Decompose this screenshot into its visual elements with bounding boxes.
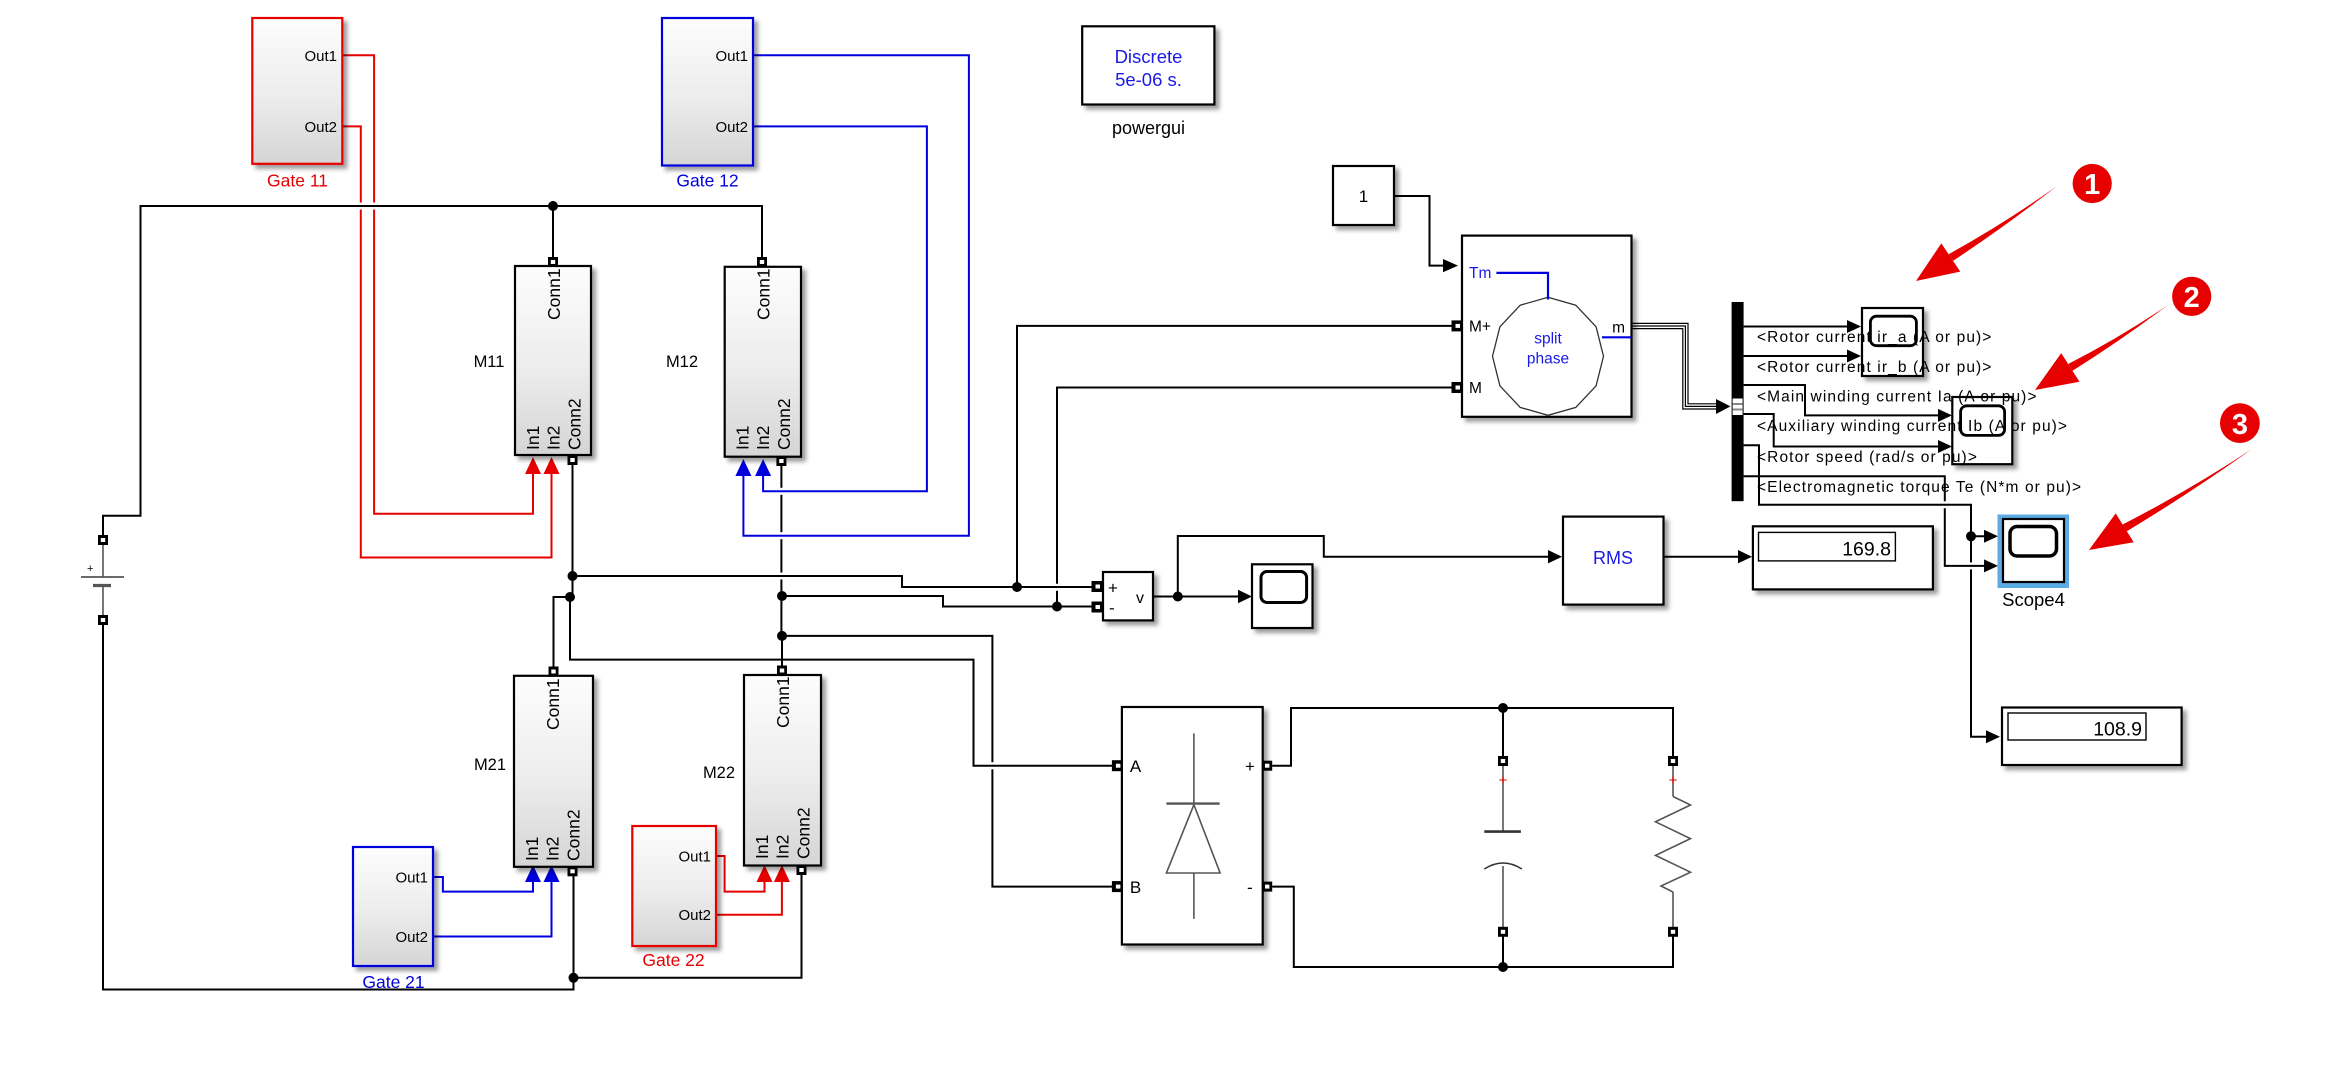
gate 12 wire out2 to M12 in2 (blue) [753,126,927,491]
arrowhead into scope2 in1 [1938,409,1952,422]
svg-text:In1: In1 [522,837,542,861]
svg-text:split: split [1534,331,1562,348]
svg-text:+: + [87,563,93,575]
arrowhead into voltage scope [1238,590,1252,603]
svg-text:+: + [1108,579,1118,598]
M11 Conn1 port [548,257,558,267]
annotation number circle 2 [2172,277,2211,316]
M11 Conn2 port [568,455,578,465]
svg-text:A: A [1130,757,1142,776]
wire node C to voltmeter minus [782,596,1093,607]
junction DC plus rail / capacitor [1498,703,1508,713]
wire node B to bridge A [570,597,1113,766]
svg-text:In2: In2 [544,426,564,450]
junction v output / RMS branch [1173,592,1183,602]
constant block 1 [1333,166,1394,225]
M11 in1 red port arrow [525,457,541,474]
wire M12 Conn2 down through node C to node D [780,465,782,488]
svg-text:108.9: 108.9 [2093,719,2142,741]
svg-text:1: 1 [2084,169,2100,201]
svg-text:In2: In2 [543,837,563,861]
wire voltmeter output to scope [1153,596,1247,598]
svg-text:1: 1 [1359,187,1368,206]
M22 in2 red port arrow [774,865,790,882]
svg-text:In1: In1 [523,426,543,450]
arrowhead into scope4 in2 [1984,559,1998,572]
subsystem Gate 21 [353,847,433,992]
junction node D M22 Conn1 / bridge B [777,631,787,641]
bus signal labels [1757,329,2082,496]
wire M21 Conn2 junction to M22 Conn2 [574,875,802,978]
M21 in1 blue port arrow [525,865,541,882]
M21 Conn1 port [549,667,559,677]
wire tap to split phase M+ [1017,326,1452,587]
gate 21 wire out2 to M21 in2 (blue) [433,878,552,937]
wire constant to Tm [1394,196,1443,266]
bridge A port [1112,760,1123,771]
gate 22 wire out2 to M22 in2 (red) [716,878,782,915]
diode bridge rectifier block [1122,707,1263,945]
wire top DC rail to capacitor [1502,708,1504,761]
DC voltage source battery [81,544,124,616]
bus triple line m to bus selector [1632,323,1718,409]
gate 11 wire out1 to M11 in1 (red) [342,55,782,914]
battery bottom port [98,615,108,625]
svg-text:Conn2: Conn2 [794,807,814,859]
svg-text:Conn2: Conn2 [774,398,794,450]
bus selector bar [1732,302,1744,501]
wire bridge plus to top DC rail [1272,708,1673,766]
wire bus tap3 to scope2 in1 [1744,385,1948,415]
junction node B M21 Conn1 / bridge A [565,592,575,602]
wire battery plus to M11/M12 Conn1 top rail [103,206,762,536]
wire RMS output to display [1664,556,1748,558]
svg-text:m: m [1612,320,1625,337]
svg-text:<Rotor current ir_b (A or pu)>: <Rotor current ir_b (A or pu)> [1757,359,1992,376]
wire bus tap2 to scope1 in2 [1744,355,1857,357]
svg-text:<Main winding current Ia (A or: <Main winding current Ia (A or pu)> [1757,389,2038,406]
junction rotor speed to scope4 and display [1966,531,1976,541]
subsystem M11 [474,266,591,455]
arrowhead into scope1 in2 [1847,350,1861,363]
arrowhead into scope4 in1 [1984,530,1998,543]
svg-text:Out2: Out2 [304,119,337,136]
svg-text:Conn1: Conn1 [543,678,563,730]
wire bottom DC rail to capacitor [1502,932,1504,967]
svg-text:Out1: Out1 [304,48,337,65]
arrowhead into split phase Tm [1443,259,1458,272]
arrowhead into scope1 in1 [1847,320,1861,333]
subsystem Gate 12 [662,18,753,191]
display 108.9 [2002,708,2182,766]
wire node B to M21 Conn1 [554,597,571,668]
wire branch top rail to M11 Conn1 [552,206,554,258]
arrowhead into scope2 in2 [1938,440,1952,453]
M21 in2 blue port arrow [544,865,560,882]
svg-text:phase: phase [1527,351,1569,368]
RMS block [1563,517,1664,605]
svg-text:Conn1: Conn1 [544,268,564,320]
voltmeter plus port [1092,581,1103,592]
svg-text:Out2: Out2 [715,119,748,136]
arrowhead into bus selector [1716,399,1731,414]
M12 in2 blue port arrow [755,459,771,476]
voltmeter block v [1103,572,1153,620]
svg-text:Conn2: Conn2 [564,809,584,861]
wire M11 Conn2 down to node A [572,464,574,597]
svg-text:In1: In1 [733,426,753,450]
voltmeter minus port [1092,602,1103,613]
annotation number circle 3 [2220,403,2260,443]
resistor branch [1656,765,1691,928]
split phase M+ port [1452,320,1463,331]
svg-text:<Rotor speed (rad/s or pu)>: <Rotor speed (rad/s or pu)> [1757,449,1978,466]
capacitor top port [1498,756,1508,766]
gate 22 wire out1 to M22 in1 (red) [716,856,765,892]
annotation arrow 2 [2068,305,2168,371]
M11 in2 red port arrow [544,457,560,474]
annotation number circle 1 [2073,164,2112,203]
svg-text:M12: M12 [666,353,698,371]
powergui block Discrete 5e-06 s. [1082,26,1214,138]
battery top port [98,535,108,545]
svg-text:+: + [1245,757,1255,776]
M21 Conn2 port [568,866,578,876]
svg-text:5e-06 s.: 5e-06 s. [1115,69,1182,90]
svg-text:Out1: Out1 [395,870,428,887]
wire bus tap1 to scope1 in1 [1744,326,1857,328]
scope block 2 (winding currents) [1952,397,2012,464]
svg-text:-: - [1109,599,1115,618]
annotation arrow 1 [1949,186,2057,261]
svg-text:Gate 21: Gate 21 [362,972,424,992]
bridge B port [1112,881,1123,892]
junction DC minus rail / capacitor [1498,962,1508,972]
svg-text:Scope4: Scope4 [2002,589,2065,610]
annotation arrow 3 [2123,449,2252,531]
svg-text:M22: M22 [703,764,735,782]
svg-text:M21: M21 [474,756,506,774]
junction v minus / split phase M tap [1052,602,1062,612]
wire rotor speed branch to display 108.9 [1970,536,1972,562]
subsystem Gate 11 [252,18,342,191]
subsystem M12 [666,267,801,457]
svg-text:In2: In2 [753,426,773,450]
svg-text:Conn2: Conn2 [565,398,585,450]
svg-text:+: + [1669,772,1678,789]
svg-text:Gate 11: Gate 11 [267,171,328,191]
svg-text:169.8: 169.8 [1842,539,1891,561]
svg-text:<Electromagnetic torque Te (N*: <Electromagnetic torque Te (N*m or pu)> [1757,479,2082,496]
scope4 block (selected) [1998,515,2070,611]
wire node D to M22 Conn1 [781,636,783,667]
svg-text:+: + [1499,772,1508,789]
junction node C M12 Conn2 / v minus [777,591,787,601]
svg-text:Gate 12: Gate 12 [676,171,738,191]
svg-text:powergui: powergui [1112,118,1185,138]
wire node D to bridge B [782,636,992,762]
svg-text:M11: M11 [474,353,505,371]
wire voltmeter output branch to RMS [1178,536,1557,597]
resistor bottom port [1668,927,1678,937]
wire bus tap4 to scope2 in2 [1744,414,1948,447]
svg-text:3: 3 [2232,409,2248,441]
wire bus tap5 to scope4 in1 [1744,445,1994,536]
wire node A to voltmeter plus [573,576,1094,587]
bridge plus port [1262,761,1272,771]
svg-text:<Auxiliary winding current Ib: <Auxiliary winding current Ib (A or pu)> [1757,418,2068,435]
svg-text:In2: In2 [773,835,793,859]
svg-text:Conn1: Conn1 [754,268,774,320]
M22 Conn2 port [797,865,807,875]
junction bottom rail M21/M22 Conn2 [569,973,579,983]
svg-text:Gate 22: Gate 22 [642,950,704,970]
svg-text:RMS: RMS [1593,548,1633,568]
gate 21 wire out1 to M21 in1 (blue) [433,877,533,892]
junction v plus / split phase M+ tap [1012,582,1022,592]
M12 Conn2 port [776,456,786,466]
svg-text:M+: M+ [1469,319,1491,336]
M12 in1 blue port arrow [735,459,751,476]
svg-text:Tm: Tm [1469,265,1491,282]
junction top rail to M11 Conn1 [548,201,558,211]
svg-text:v: v [1136,590,1144,607]
svg-text:Out1: Out1 [715,48,748,65]
wire bus tap6 to scope4 in2 [1744,476,1945,501]
M22 in1 red port arrow [757,865,773,882]
split phase M port [1452,382,1463,393]
scope block 1 (rotor currents) [1862,308,1923,376]
svg-text:<Rotor current ir_a (A or pu)>: <Rotor current ir_a (A or pu)> [1757,329,1992,346]
svg-text:Out2: Out2 [395,929,428,946]
capacitor bottom port [1498,927,1508,937]
junction node A M11 Conn2 / v plus [568,571,578,581]
svg-text:2: 2 [2184,282,2200,314]
M22 Conn1 port [777,666,787,676]
svg-text:Discrete: Discrete [1115,46,1183,67]
svg-text:-: - [1247,878,1253,897]
arrowhead into RMS [1548,550,1562,563]
svg-text:Out2: Out2 [678,907,711,924]
gate 11 wire out2 to M11 in2 (red) [342,126,360,202]
M12 Conn1 port [757,257,767,267]
split phase motor block [1462,236,1632,417]
svg-text:M: M [1469,380,1482,397]
svg-text:In1: In1 [752,835,772,859]
resistor top port [1668,756,1678,766]
subsystem M21 [474,676,593,867]
bridge minus port [1262,882,1272,892]
display 169.8 [1753,526,1933,589]
gate 12 wire out1 to M12 in1 (blue) [433,55,969,936]
capacitor branch [1484,765,1522,928]
svg-text:B: B [1130,878,1141,897]
wire tap to split phase M [1056,591,1058,607]
subsystem M22 [703,675,821,866]
svg-text:Conn1: Conn1 [773,676,793,728]
subsystem Gate 22 [632,826,716,970]
arrowhead into display 169.8 [1738,550,1752,563]
svg-text:Out1: Out1 [678,849,711,866]
arrowhead into display 108.9 [1986,730,2000,743]
wire battery minus bottom rail [103,624,574,990]
wire bridge minus to bottom DC rail [1272,887,1673,967]
scope block 3 (voltage scope) [1252,564,1313,628]
